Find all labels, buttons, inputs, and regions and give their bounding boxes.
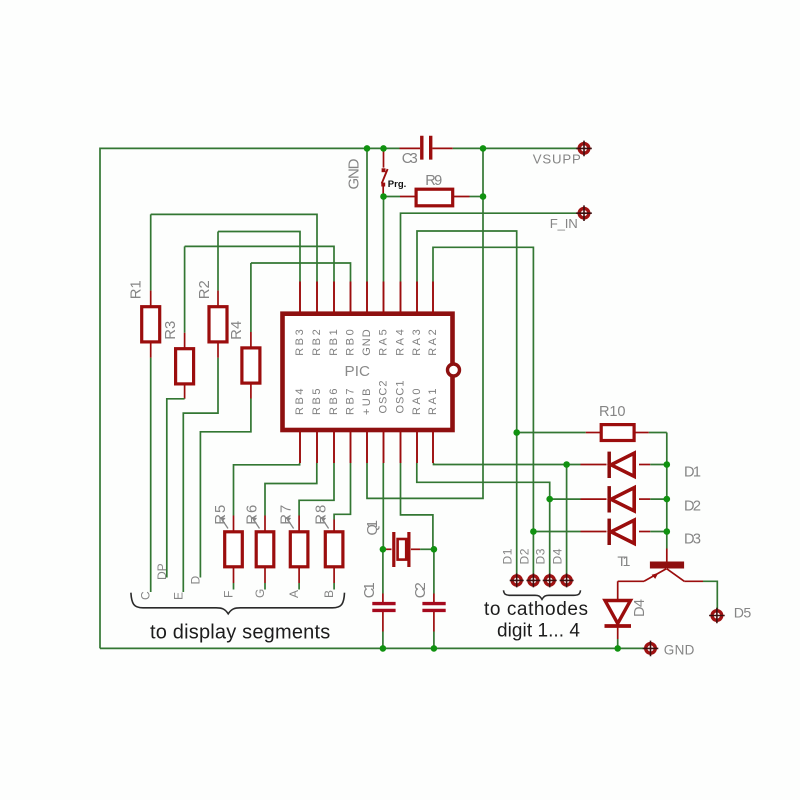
junction supply / top rail: [480, 145, 487, 152]
diode D3: [609, 519, 634, 545]
wire R2 top green lead: [217, 232, 219, 291]
svg-text:C1: C1: [362, 582, 378, 598]
wire R6 top red stub: [264, 516, 266, 532]
wire crystal right red lead: [411, 548, 420, 550]
svg-text:Q1: Q1: [365, 520, 381, 536]
wire OSC2 down to crystal left: [382, 463, 384, 549]
crystal Q1 body: [398, 539, 407, 560]
svg-text:RB5: RB5: [311, 389, 323, 416]
wire C2 top red lead: [433, 594, 435, 603]
svg-text:RA5: RA5: [378, 329, 390, 356]
svg-text:R7: R7: [279, 505, 295, 525]
wire RB7 to R8 top: [334, 463, 350, 520]
svg-text:D1: D1: [684, 465, 701, 481]
svg-text:D2: D2: [517, 548, 531, 564]
resistor R4: [242, 348, 260, 383]
wire D1 row junction down to cathode pad D4: [566, 465, 568, 575]
wire D1 right lead: [639, 464, 650, 466]
label R5 pointer arrow: [220, 517, 228, 529]
transistor T1 emitter diagonal with arrow: [644, 569, 666, 582]
svg-text:RB4: RB4: [294, 389, 306, 416]
wire R10 left red stub: [586, 432, 601, 434]
wire R6 to segment G: [264, 583, 266, 590]
svg-text:GND: GND: [361, 329, 373, 356]
junction R9 right / supply: [480, 193, 487, 200]
wire F_IN pad to RA4 pin: [401, 213, 579, 281]
wire R7 to segment A red stub: [298, 567, 300, 583]
svg-text:F_IN: F_IN: [550, 216, 578, 231]
wire supply: R9 right lead to supply vertical: [470, 196, 484, 198]
svg-text:C3: C3: [402, 151, 418, 167]
wire R10 right lead green: [649, 432, 667, 434]
label R8 pointer arrow: [321, 517, 329, 529]
svg-text:R6: R6: [244, 505, 260, 525]
svg-text:DP: DP: [155, 563, 169, 580]
wire C1 top red lead: [382, 594, 384, 603]
wire RA1 to D1 anode row: [434, 463, 581, 465]
wire D1 anode red lead: [581, 464, 607, 466]
wire RA3 up-over-down to R10 junction and cathode pad D1: [417, 231, 517, 575]
svg-text:RA3: RA3: [411, 329, 423, 356]
wire R5 to segment F: [233, 583, 235, 590]
IC U1 PIC body: [283, 314, 453, 430]
svg-text:to cathodes: to cathodes: [484, 599, 588, 620]
svg-text:G: G: [253, 589, 267, 598]
capacitor C2: [422, 604, 445, 611]
wire Prg junction down to RA5 pin: [383, 197, 385, 282]
wire C1 top lead: [382, 549, 384, 593]
junction D1 row / pad D4 column: [563, 461, 570, 468]
wire OSC1 down-over-down to crystal right: [401, 463, 433, 549]
wire R5 to segment F red stub: [233, 567, 235, 583]
junction crystal right / OSC1 / C2: [431, 546, 438, 553]
wire R3 top red stub: [184, 333, 186, 349]
resistor R1: [142, 307, 160, 342]
wire R9 right red stub: [453, 196, 470, 198]
svg-text:R10: R10: [599, 404, 626, 420]
svg-text:R1: R1: [129, 280, 145, 299]
svg-text:RB0: RB0: [345, 329, 357, 356]
svg-text:A: A: [287, 590, 301, 598]
wire R9 left red stub: [400, 196, 416, 198]
wire R3 bottom red stub: [184, 384, 186, 399]
svg-text:R9: R9: [425, 173, 442, 189]
wire R1 top red stub: [150, 291, 152, 307]
svg-text:R8: R8: [314, 505, 330, 525]
wire GND net: left rail (top rail + left vertical): [100, 148, 400, 648]
wire R10 right lead red: [634, 432, 649, 434]
svg-text:GND: GND: [664, 643, 695, 658]
svg-text:C: C: [139, 591, 153, 600]
svg-text:D5: D5: [734, 606, 752, 622]
wire C1 bottom lead to GND rail: [382, 632, 384, 649]
svg-text:R4: R4: [229, 321, 245, 340]
junction GND pin / top rail: [364, 145, 371, 152]
resistor R6: [256, 532, 274, 567]
svg-text:RB2: RB2: [311, 329, 323, 356]
wire C2 bottom lead to GND rail: [433, 632, 435, 649]
svg-text:D3: D3: [684, 531, 701, 547]
wire R7 top red stub: [298, 516, 300, 532]
wire D3 right lead: [639, 531, 650, 533]
svg-text:+UB: +UB: [361, 389, 373, 416]
svg-text:RA4: RA4: [395, 329, 407, 356]
wire R6 to segment G red stub: [264, 567, 266, 583]
wire R2 to segment E: [183, 358, 218, 592]
transistor T1 base bar: [650, 562, 684, 569]
wire R3 to segment DP: [167, 399, 185, 578]
brace for cathodes: [504, 590, 581, 599]
svg-text:OSC1: OSC1: [395, 381, 407, 414]
wire GND net: bottom rail: [100, 647, 644, 649]
svg-text:GND: GND: [345, 158, 362, 189]
wire R4 to segment D: [200, 399, 251, 578]
wire D1 right lead green: [650, 464, 667, 466]
switch Prg top contact: [382, 168, 386, 172]
wire R7 to segment A: [298, 583, 300, 590]
svg-text:B: B: [322, 590, 336, 598]
junction D1 right / cathode column: [664, 461, 671, 468]
svg-text:E: E: [171, 592, 185, 600]
resistor R7: [290, 532, 308, 567]
wire Prg switch bottom lead: [382, 186, 384, 193]
IC U1 pin-1 notch: [448, 364, 460, 376]
wire RB5 to R6 top: [265, 463, 317, 516]
svg-text:to display segments: to display segments: [150, 622, 330, 644]
junction D3 right / cathode column: [664, 528, 671, 535]
wire R1 bottom red stub: [150, 342, 152, 358]
pad cathode D3: [543, 573, 557, 587]
svg-text:RA1: RA1: [427, 389, 439, 416]
svg-text:T1: T1: [617, 554, 630, 570]
svg-text:RB7: RB7: [345, 389, 357, 416]
svg-text:digit 1... 4: digit 1... 4: [497, 621, 580, 642]
crystal Q1 plates: [394, 532, 409, 567]
pad VSUPP: [576, 141, 592, 157]
svg-text:D2: D2: [684, 498, 701, 514]
capacitor C3: [422, 136, 431, 160]
wire RB3 to R2 top: [218, 232, 300, 282]
wire R3 top green lead: [184, 246, 186, 332]
wire GND pin column to PIC GND pin: [366, 148, 368, 281]
wire C2 bottom red lead: [433, 612, 435, 632]
wire R4 top red stub: [250, 332, 252, 348]
wire D2 right lead green: [650, 498, 667, 500]
resistor R8: [325, 532, 343, 567]
wire supply: C3 right to VSUPP pad: [453, 147, 579, 149]
capacitor C1: [372, 604, 395, 611]
wire Prg switch top lead: [383, 148, 385, 167]
wire T1 emitter right horizontal red: [684, 580, 703, 582]
svg-text:R3: R3: [163, 321, 179, 340]
junction D2 row / pad D3 column: [546, 496, 553, 503]
svg-text:RB6: RB6: [328, 389, 340, 416]
svg-text:RB3: RB3: [294, 329, 306, 356]
wire R4 bottom red stub: [250, 383, 252, 398]
svg-text:Prg.: Prg.: [388, 179, 406, 190]
wire D2 anode row: [550, 498, 581, 500]
wire R8 to segment B: [333, 583, 335, 590]
wire T1 emitter right to D5 pad: [703, 581, 717, 610]
svg-text:VSUPP: VSUPP: [533, 152, 581, 167]
pad GND: [643, 641, 659, 657]
wire RB6 to R7 top: [299, 463, 334, 516]
diode D4: [605, 601, 632, 627]
wire D4 top lead: [617, 581, 619, 600]
switch Prg bottom contact: [381, 183, 385, 187]
svg-text:D4: D4: [632, 599, 648, 617]
wire R1 top green lead: [150, 214, 152, 290]
wire R10 left lead: [517, 432, 586, 434]
wire RB0 to R4 top: [251, 263, 351, 282]
pad D5: [709, 608, 725, 624]
wire R1 to segment C: [150, 358, 152, 592]
resistor R5: [225, 532, 243, 567]
wire R9 left lead from Prg junction: [384, 196, 401, 198]
wire R8 to segment B red stub: [333, 567, 335, 583]
wire crystal right green lead: [420, 548, 433, 550]
label R7 pointer arrow: [286, 517, 294, 529]
svg-text:PIC: PIC: [345, 363, 371, 380]
svg-text:D3: D3: [534, 548, 548, 564]
pad F_IN: [576, 205, 592, 221]
switch Prg lever: [382, 169, 388, 184]
IC U1 bottom pins: [300, 430, 433, 463]
svg-text:R5: R5: [213, 505, 229, 525]
wire R4 top green lead: [250, 263, 252, 332]
wire supply: vertical drop to +UB pin: [367, 148, 483, 498]
junction D4 / GND rail: [614, 645, 621, 652]
svg-text:RB1: RB1: [328, 329, 340, 356]
wire D3 anode red lead: [581, 531, 607, 533]
transistor T1 collector diagonal: [667, 569, 685, 582]
svg-text:D1: D1: [501, 548, 515, 564]
resistor R2: [209, 307, 227, 342]
wire R5 top red stub: [233, 516, 235, 532]
wire R2 top red stub: [217, 291, 219, 307]
wire R8 top red stub: [333, 520, 335, 532]
svg-text:D: D: [188, 576, 202, 585]
svg-text:D4: D4: [551, 548, 565, 564]
wire T1 emitter left horizontal: [618, 580, 644, 582]
wire RB4 to R5 top: [234, 463, 300, 516]
wire D3 anode row: [533, 531, 580, 533]
svg-text:C2: C2: [413, 582, 429, 598]
svg-text:F: F: [222, 591, 236, 598]
svg-text:RA0: RA0: [411, 389, 423, 416]
diode D1: [609, 452, 634, 478]
wire D4 bottom lead to GND rail: [617, 639, 619, 648]
resistor R10: [601, 425, 634, 441]
wire diode cathode column from R10 to T1 collector: [666, 433, 668, 549]
junction Prg / top rail: [380, 145, 387, 152]
brace for display segments: [131, 593, 345, 614]
wire C3 left red lead: [400, 147, 421, 149]
wire D2 right lead: [639, 498, 650, 500]
IC U1 top pins: [300, 282, 433, 314]
wire T1 collector red lead: [666, 549, 668, 563]
resistor R3: [176, 349, 194, 384]
wire crystal left red lead: [384, 548, 392, 550]
svg-text:R2: R2: [197, 280, 213, 299]
wire D2 anode red lead: [581, 498, 607, 500]
junction C2 / GND rail: [431, 645, 438, 652]
junction crystal left / OSC2 / C1: [380, 546, 387, 553]
wire C1 bottom red lead: [382, 612, 384, 632]
svg-text:OSC2: OSC2: [378, 381, 390, 414]
pad cathode D1: [510, 573, 524, 587]
resistor R9: [416, 189, 453, 206]
junction Prg bottom / R9: [380, 193, 387, 200]
wire C3 right red lead: [432, 147, 452, 149]
junction D2 right / cathode column: [664, 496, 671, 503]
junction D3 row / pad D2 column: [530, 528, 537, 535]
pad cathode D4: [560, 573, 574, 587]
wire RA2 up-over-down to D3 junction and cathode pad D2: [433, 247, 533, 574]
wire C2 top lead: [433, 549, 435, 593]
pad cathode D2: [526, 573, 540, 587]
svg-text:RA2: RA2: [427, 329, 439, 356]
label R6 pointer arrow: [252, 517, 260, 529]
wire RB2 to R1 top: [151, 214, 317, 281]
wire RB1 to R3 top: [185, 246, 334, 281]
wire RA0 down-over-down to D2 junction and cathode pad D3: [417, 463, 550, 575]
wire D4 bottom red lead: [617, 628, 619, 639]
junction R10 left / pad D1 column: [513, 429, 520, 436]
wire D3 right lead green: [650, 531, 667, 533]
junction C1 / GND rail: [380, 645, 387, 652]
diode D2: [609, 486, 634, 512]
wire R2 bottom red stub: [217, 342, 219, 358]
